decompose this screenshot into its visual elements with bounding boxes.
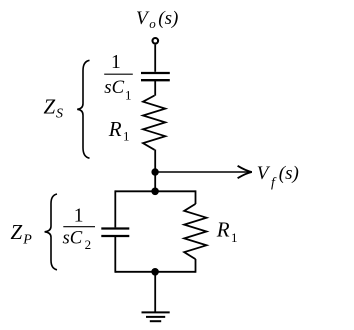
wire left branch lower [114,236,116,273]
svg-text:S: S [56,107,63,122]
wire parallel top [115,190,195,192]
label R1 parallel [216,217,238,244]
node junction parallel bottom [151,268,159,276]
svg-text:P: P [22,232,32,247]
svg-text:sC: sC [104,77,124,98]
capacitor C2 [101,229,129,237]
terminal Vo [153,38,159,44]
brace ZS [77,60,89,158]
svg-text:(s): (s) [158,8,178,29]
resistor R1 series [143,96,165,150]
wire right branch upper [195,190,197,204]
wire parallel bottom [115,271,195,273]
svg-text:1: 1 [74,206,84,227]
svg-text:R: R [216,217,230,241]
capacitor C1 [141,73,170,80]
svg-text:1: 1 [123,129,130,144]
label ZP [11,220,33,247]
wire left branch upper [114,190,116,227]
svg-text:1: 1 [125,87,132,102]
wire R1 to node [154,150,156,192]
wire terminal to C1 [154,45,156,72]
svg-text:2: 2 [85,237,92,252]
node junction parallel top [151,188,159,196]
label ZS [44,95,64,122]
svg-text:o: o [149,16,156,31]
value label 1/sC2 [63,206,96,252]
svg-text:Z: Z [44,95,56,119]
svg-text:1: 1 [111,52,121,73]
label Vo(s) [136,8,178,31]
ground [142,312,170,321]
resistor R1 parallel [184,204,206,259]
svg-text:1: 1 [231,230,238,245]
label Vf(s) [257,163,299,191]
svg-text:Z: Z [11,220,23,244]
svg-text:R: R [108,117,122,141]
value label 1/sC1 [104,52,133,102]
wire C1 to R1 [154,80,156,96]
label R1 series [108,117,130,143]
wire arrow to Vf [155,166,252,178]
svg-text:sC: sC [63,228,83,249]
wire to ground [154,272,156,312]
brace ZP [45,194,57,270]
svg-text:(s): (s) [279,163,299,184]
wire right branch lower [195,259,197,273]
node junction Vf [151,168,158,175]
